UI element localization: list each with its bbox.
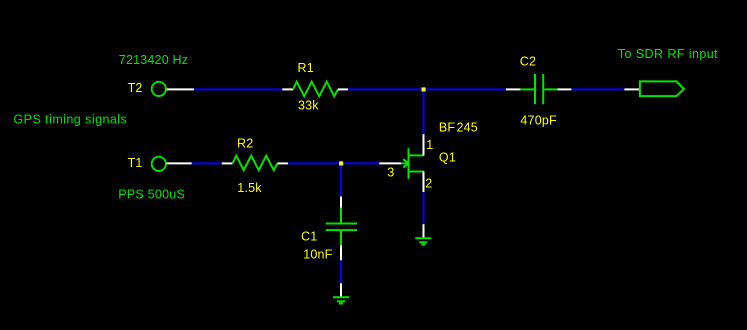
terminal T1 circle xyxy=(152,157,166,171)
capacitor C1 top pin xyxy=(340,197,342,208)
resistor R2 pin right xyxy=(277,162,288,164)
svg-text:R2: R2 xyxy=(237,137,253,151)
transistor Q1 source lead xyxy=(409,171,425,173)
ground under C1 pin xyxy=(340,283,342,296)
transistor Q1 source pin xyxy=(423,172,425,193)
wire junction A down to C1 xyxy=(340,163,342,196)
ground under Q1 bar 3 xyxy=(421,244,425,246)
svg-text:C1: C1 xyxy=(301,230,317,244)
resistor R1 pin left xyxy=(282,88,293,90)
pin of T2 xyxy=(167,88,194,90)
wire net R1 to junction B to C2 xyxy=(348,88,506,90)
capacitor C1 bottom pin xyxy=(340,245,342,260)
wire R2 to junction A to gate xyxy=(288,162,379,164)
transistor Q1 gate lead xyxy=(401,162,409,164)
capacitor C2 pin left xyxy=(506,88,521,90)
svg-text:10nF: 10nF xyxy=(303,248,332,262)
terminal T2 circle xyxy=(152,82,166,96)
svg-text:R1: R1 xyxy=(298,61,314,75)
ground under C1 bar 1 xyxy=(333,296,349,298)
svg-text:PPS 500uS: PPS 500uS xyxy=(118,188,185,202)
svg-text:470pF: 470pF xyxy=(520,113,557,127)
capacitor C1 lead bottom xyxy=(340,231,342,245)
svg-text:To SDR RF input: To SDR RF input xyxy=(618,47,718,61)
svg-text:Q1: Q1 xyxy=(439,151,456,165)
wire junction B down to drain xyxy=(423,89,425,134)
transistor Q1 channel bar xyxy=(408,148,410,179)
ground under C1 bar 3 xyxy=(339,303,343,305)
capacitor C2 lead left xyxy=(520,88,534,90)
svg-text:1.5k: 1.5k xyxy=(237,181,262,195)
output flag pin xyxy=(624,88,640,90)
capacitor C2 plate right xyxy=(542,74,544,104)
wire C1 to ground xyxy=(340,260,342,283)
capacitor C2 lead right xyxy=(544,88,557,90)
resistor R2 body xyxy=(233,156,278,171)
svg-text:GPS timing signals: GPS timing signals xyxy=(14,113,128,127)
capacitor C1 plate bottom xyxy=(326,229,357,231)
wire net T1 segment 1 xyxy=(192,162,222,164)
resistor R2 pin left xyxy=(222,162,233,164)
svg-text:T1: T1 xyxy=(128,156,143,170)
transistor Q1 gate pin xyxy=(379,162,401,164)
wire source to ground xyxy=(423,192,425,224)
junction dot A xyxy=(339,161,343,165)
junction dot B xyxy=(422,87,426,91)
ground under Q1 bar 2 xyxy=(419,241,427,243)
output flag To SDR RF input xyxy=(640,81,684,96)
resistor R1 body xyxy=(293,82,338,97)
svg-text:T2: T2 xyxy=(128,81,143,95)
capacitor C2 pin right xyxy=(558,88,572,90)
transistor Q1 gate arrow barb upper xyxy=(403,159,408,163)
svg-text:7213420 Hz: 7213420 Hz xyxy=(119,53,188,67)
capacitor C2 plate left xyxy=(534,74,536,104)
wire net T2 segment 1 xyxy=(194,88,282,90)
transistor Q1 drain lead xyxy=(409,154,425,156)
wire C2 to output flag xyxy=(571,88,624,90)
capacitor C1 plate top xyxy=(326,223,357,225)
svg-text:BF 245: BF 245 xyxy=(439,120,478,134)
pin of T1 xyxy=(167,162,192,164)
svg-text:1: 1 xyxy=(426,138,433,152)
transistor Q1 gate arrow barb lower xyxy=(403,164,408,168)
svg-text:33k: 33k xyxy=(298,99,319,113)
svg-text:C2: C2 xyxy=(520,55,536,69)
capacitor C1 lead top xyxy=(340,208,342,223)
ground under C1 bar 2 xyxy=(337,300,345,302)
resistor R1 pin right xyxy=(338,88,348,90)
ground under Q1 pin xyxy=(423,224,425,238)
svg-text:2: 2 xyxy=(425,176,432,190)
transistor Q1 drain pin xyxy=(423,134,425,155)
svg-text:3: 3 xyxy=(387,165,394,179)
ground under Q1 bar 1 xyxy=(415,237,431,239)
